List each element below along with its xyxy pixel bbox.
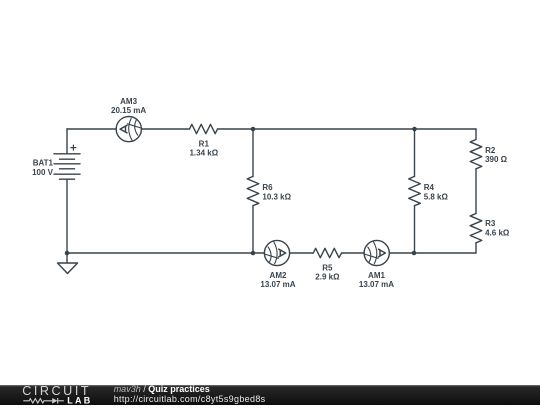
wire AM2 to R5	[290, 252, 314, 254]
footer text	[114, 384, 266, 404]
ammeter AM1	[364, 240, 389, 265]
wire R1 to node A	[218, 128, 254, 130]
svg-text:LAB: LAB	[67, 395, 92, 405]
node E junction dot (R6 bottom)	[251, 251, 256, 256]
svg-text:20.15 mA: 20.15 mA	[111, 106, 146, 115]
resistor R3	[470, 214, 482, 243]
svg-text:AM3: AM3	[120, 97, 137, 106]
svg-text:R4: R4	[424, 183, 435, 192]
ammeter AM3	[116, 117, 141, 142]
svg-text:4.6 kΩ: 4.6 kΩ	[485, 228, 510, 237]
node B junction dot	[412, 127, 417, 132]
wire bottom left horizontal	[67, 252, 264, 254]
footer bar	[0, 385, 540, 405]
ground	[58, 263, 78, 274]
svg-text:AM2: AM2	[270, 271, 287, 280]
svg-text:BAT1: BAT1	[33, 159, 54, 168]
wire R4 top lead	[414, 129, 416, 176]
resistor R4	[409, 176, 421, 205]
svg-text:1.34 kΩ: 1.34 kΩ	[189, 149, 218, 158]
svg-text:100 V: 100 V	[32, 168, 54, 177]
wire R5 to AM1	[342, 252, 365, 254]
wire ground stub	[66, 253, 68, 263]
svg-text:390 Ω: 390 Ω	[485, 155, 508, 164]
wire R4 bottom lead	[414, 206, 416, 253]
battery BAT1	[54, 145, 80, 179]
wire node A to node B	[253, 128, 415, 130]
svg-text:R3: R3	[485, 219, 496, 228]
wire AM1 to node D	[389, 252, 414, 254]
wire R2 top lead	[475, 129, 477, 140]
node D junction dot (R4 bottom)	[412, 251, 417, 256]
svg-text:13.07 mA: 13.07 mA	[260, 280, 295, 289]
node A junction dot	[251, 127, 256, 132]
ammeter AM2	[264, 240, 289, 265]
svg-text:R6: R6	[262, 183, 273, 192]
resistor R2	[470, 140, 482, 169]
wire node D to bottom right corner	[414, 252, 476, 254]
resistor R1	[190, 124, 218, 133]
wire R6 bottom lead	[252, 206, 254, 253]
wire node B to top right corner	[415, 128, 477, 130]
wire R3 bottom lead	[475, 243, 477, 253]
CircuitLab logo	[22, 385, 102, 410]
node C junction dot (ground)	[65, 251, 70, 256]
svg-text:R2: R2	[485, 146, 496, 155]
wire left vertical top (battery +)	[66, 129, 68, 154]
wire left vertical bottom (battery -)	[66, 179, 68, 253]
wire R2 to R3	[475, 169, 477, 214]
svg-text:5.8 kΩ: 5.8 kΩ	[424, 192, 449, 201]
svg-text:10.3 kΩ: 10.3 kΩ	[262, 192, 291, 201]
wire top left horizontal	[67, 128, 116, 130]
svg-text:R1: R1	[199, 139, 210, 148]
svg-text:AM1: AM1	[368, 271, 385, 280]
svg-text:R5: R5	[322, 263, 333, 272]
resistor R6	[247, 176, 259, 205]
wire AM3 to R1	[141, 128, 189, 130]
svg-text:13.07 mA: 13.07 mA	[359, 280, 394, 289]
svg-text:2.9 kΩ: 2.9 kΩ	[315, 273, 340, 282]
resistor R5	[313, 248, 341, 257]
wire R6 top lead	[252, 129, 254, 176]
